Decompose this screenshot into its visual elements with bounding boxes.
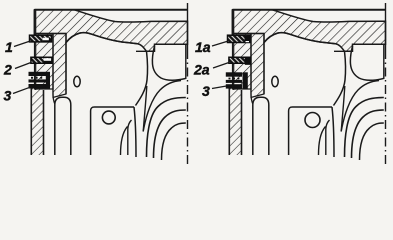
leader line 1a xyxy=(212,41,228,46)
ring 2 (left, taper face ring) xyxy=(31,57,52,63)
leader line 3 right xyxy=(212,86,227,89)
svg-text:1a: 1a xyxy=(195,39,211,55)
leader line 1 xyxy=(14,41,30,46)
svg-text:2: 2 xyxy=(3,62,12,78)
leader line 2a xyxy=(213,63,229,69)
svg-text:2a: 2a xyxy=(193,62,210,78)
svg-text:3: 3 xyxy=(4,88,12,104)
ring 3 (right, oil control ring) xyxy=(226,72,248,89)
ring 1 (left, stepped compression ring) xyxy=(30,35,52,42)
leader line 2 xyxy=(15,63,31,69)
ring 2a (right, taper face ring) xyxy=(229,57,251,65)
right pin bore xyxy=(305,113,320,128)
leader line 3 xyxy=(13,87,30,93)
right half piston section xyxy=(229,3,385,164)
svg-text:3: 3 xyxy=(202,83,210,99)
ring 1a (right, chamfered compression ring) xyxy=(228,35,251,42)
left pin bore xyxy=(102,111,115,124)
ring 3 (left, oil control ring) xyxy=(29,72,51,89)
left half piston section xyxy=(31,3,187,164)
svg-text:1: 1 xyxy=(5,39,13,55)
